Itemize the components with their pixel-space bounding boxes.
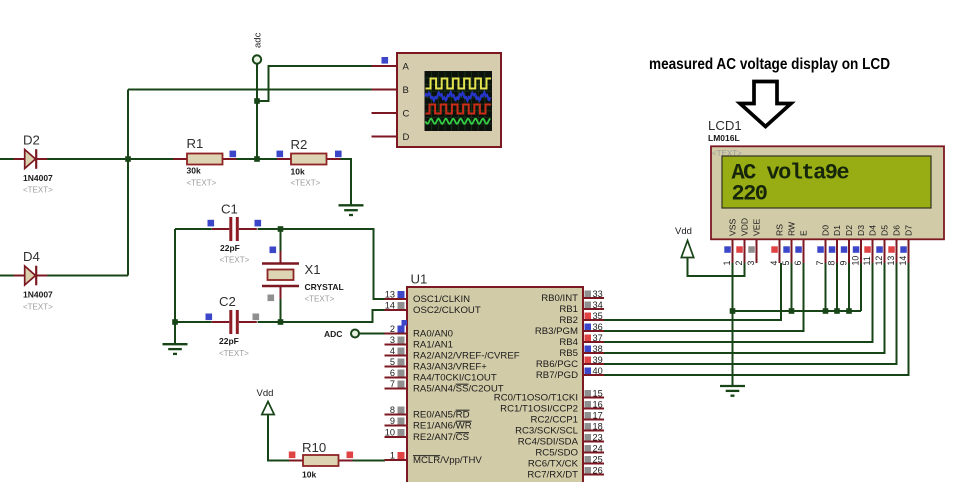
U1 pin 39 (right)	[583, 355, 604, 365]
U1 pin 1 (left)	[385, 451, 408, 461]
svg-text:C2: C2	[219, 294, 236, 309]
wire Vdd right to LCD pin2 VDD	[688, 257, 745, 276]
U1 pin 38 (right)	[583, 344, 604, 354]
U1 pin 36 (right)	[583, 322, 604, 332]
oscilloscope body	[397, 53, 501, 147]
U1 pin 25 (right)	[583, 455, 604, 465]
svg-text:RW: RW	[787, 221, 797, 236]
LCD1 pin 11 D4	[862, 225, 878, 266]
U1 pin 17 (right)	[583, 411, 604, 421]
svg-text:10k: 10k	[302, 470, 316, 480]
svg-text:9: 9	[839, 261, 849, 266]
svg-text:23: 23	[593, 433, 603, 443]
wire MCU pin 37 RB4 to LCD D4	[604, 263, 873, 342]
svg-text:17: 17	[593, 411, 603, 421]
marker square scope A	[382, 57, 389, 64]
wire Vdd left stem to R10	[268, 414, 296, 461]
resistor R2	[277, 154, 341, 165]
svg-text:RE0/AN5/RD: RE0/AN5/RD	[413, 410, 470, 421]
svg-text:D7: D7	[904, 225, 914, 236]
wire C2 left	[175, 321, 212, 323]
svg-text:D1: D1	[832, 225, 842, 236]
svg-text:1N4007: 1N4007	[23, 173, 53, 183]
LCD1 pin 4 RS	[769, 224, 785, 266]
svg-text:36: 36	[593, 322, 603, 332]
LCD1 pin 3 VEE	[746, 219, 762, 266]
U1 pin 26 (right)	[583, 466, 604, 476]
wire MCU pin 39 RB6 to LCD D6	[604, 263, 897, 364]
U1 pin 35 (right)	[583, 311, 604, 321]
svg-text:Vdd: Vdd	[675, 226, 692, 237]
wire LCD pin8 D1 to bus	[836, 263, 838, 311]
wire from D4 anode to left edge	[0, 275, 14, 277]
ground GND3 (LCD)	[720, 386, 745, 396]
U1 pin 24 (right)	[583, 444, 604, 454]
svg-text:U1: U1	[411, 272, 428, 287]
svg-text:RB0/INT: RB0/INT	[541, 293, 578, 304]
svg-text:40: 40	[593, 366, 603, 376]
svg-text:RC0/T1OSO/T1CKI: RC0/T1OSO/T1CKI	[494, 393, 578, 404]
svg-text:9: 9	[390, 416, 395, 426]
wire adc branch to scope A	[257, 66, 372, 101]
svg-text:D6: D6	[892, 225, 902, 236]
svg-text:RC4/SDI/SDA: RC4/SDI/SDA	[518, 437, 579, 448]
svg-text:LM016L: LM016L	[708, 133, 740, 143]
wire left ground riser x=175	[174, 229, 176, 344]
wire crystal bottom connection	[280, 298, 282, 322]
oscilloscope pin B	[372, 89, 398, 91]
svg-text:RB6/PGC: RB6/PGC	[536, 359, 578, 370]
svg-text:RB5: RB5	[559, 348, 578, 359]
marker square R10 left	[289, 452, 296, 459]
svg-text:1: 1	[390, 451, 395, 461]
svg-text:6: 6	[390, 368, 395, 378]
wire LCD pin10 D3 to bus	[860, 263, 862, 311]
junction adc to divider	[254, 156, 260, 162]
svg-text:2: 2	[390, 324, 395, 334]
U1 pin 16 (right)	[583, 400, 604, 410]
wire R10 right to MCU pin 1	[353, 460, 386, 462]
svg-text:38: 38	[593, 344, 603, 354]
U1 pin 2 (left)	[385, 324, 408, 334]
diode D4	[14, 266, 48, 286]
svg-text:CRYSTAL: CRYSTAL	[305, 282, 344, 292]
svg-text:RB3/PGM: RB3/PGM	[535, 326, 578, 337]
marker square C2 right	[253, 314, 260, 321]
svg-text:RC6/TX/CK: RC6/TX/CK	[528, 459, 579, 470]
svg-text:1: 1	[722, 261, 732, 266]
svg-text:7: 7	[390, 379, 395, 389]
svg-text:26: 26	[593, 466, 603, 476]
U1 pin 3 (left)	[385, 335, 408, 345]
svg-text:D5: D5	[880, 225, 890, 236]
svg-text:15: 15	[593, 389, 603, 399]
svg-text:RA5/AN4/SS/C2OUT: RA5/AN4/SS/C2OUT	[413, 384, 504, 395]
svg-text:<TEXT>: <TEXT>	[305, 295, 335, 304]
svg-text:RA1/AN1: RA1/AN1	[413, 340, 453, 351]
LCD1 pin 12 D5	[874, 225, 890, 266]
svg-text:R10: R10	[302, 440, 326, 455]
svg-text:1N4007: 1N4007	[23, 290, 53, 300]
svg-text:24: 24	[593, 444, 603, 454]
svg-text:RC2/CCP1: RC2/CCP1	[531, 415, 578, 426]
wire MCU pin 38 RB5 to LCD D5	[604, 263, 885, 353]
terminal ADC (at MCU pin2)	[351, 330, 359, 338]
svg-text:<TEXT>: <TEXT>	[291, 179, 321, 188]
svg-text:VEE: VEE	[752, 219, 762, 236]
svg-text:C: C	[403, 109, 410, 120]
svg-text:RA3/AN3/VREF+: RA3/AN3/VREF+	[413, 362, 487, 373]
svg-text:14: 14	[385, 301, 395, 311]
wire D2 cathode to R1	[47, 158, 173, 160]
scope trace blue (noisy wave)	[426, 92, 491, 101]
svg-text:22pF: 22pF	[220, 243, 240, 253]
marker square R10 right	[347, 452, 354, 459]
marker small blue square at RB2 row	[402, 320, 408, 326]
LCD1 pin 1 VSS	[722, 219, 738, 266]
svg-text:RC1/T1OSI/CCP2: RC1/T1OSI/CCP2	[500, 404, 578, 415]
oscilloscope pin C	[372, 112, 398, 114]
svg-text:25: 25	[593, 455, 603, 465]
U1 pin 40 (right)	[583, 366, 604, 376]
LCD1 pin 7 D0	[815, 225, 831, 266]
wire node A1 to MCU pin 13	[281, 229, 387, 299]
svg-text:ADC: ADC	[324, 329, 342, 339]
svg-text:OSC1/CLKIN: OSC1/CLKIN	[413, 294, 470, 305]
svg-text:B: B	[403, 85, 409, 96]
svg-text:<TEXT>: <TEXT>	[23, 303, 53, 312]
LCD1 pin 2 VDD	[734, 218, 750, 266]
wire C2 right to node A2	[258, 321, 281, 323]
wire adc terminal vertical drop	[256, 63, 258, 159]
resistor R1	[173, 154, 237, 165]
marker square C2 left	[206, 314, 213, 321]
U1 pin 5 (left)	[385, 357, 408, 367]
scope trace yellow (square wave)	[426, 79, 492, 89]
svg-text:5: 5	[390, 357, 395, 367]
U1 pin 23 (right)	[583, 433, 604, 443]
resistor R10	[289, 455, 353, 466]
marker square X1 bottom	[268, 295, 275, 302]
wire vertical riser x=128 (node joining D2,D4,scope B)	[127, 90, 129, 276]
svg-text:RA0/AN0: RA0/AN0	[413, 329, 453, 340]
svg-text:13: 13	[886, 256, 896, 266]
U1 pin 33 (right)	[583, 289, 604, 299]
junction D2/D4/scopeB node	[125, 156, 131, 162]
junction LCD D1/bus	[834, 308, 840, 314]
marker square C1 left	[208, 220, 215, 227]
svg-text:4: 4	[769, 261, 779, 266]
svg-text:MCLR/Vpp/THV: MCLR/Vpp/THV	[413, 455, 482, 466]
capacitor C2	[212, 310, 257, 334]
terminal adc (origin)	[253, 55, 261, 63]
svg-text:measured AC voltage display on: measured AC voltage display on LCD	[649, 56, 890, 73]
marker square X1 top	[270, 247, 277, 254]
svg-text:10: 10	[851, 256, 861, 266]
junction LCD RW/bus	[789, 308, 795, 314]
svg-text:R2: R2	[291, 137, 308, 152]
junction LCD VSS/bus	[730, 308, 736, 314]
svg-text:OSC2/CLKOUT: OSC2/CLKOUT	[413, 305, 481, 316]
U1 pin 37 (right)	[583, 333, 604, 343]
microcontroller U1 body	[407, 287, 583, 482]
svg-text:18: 18	[593, 422, 603, 432]
big down arrow	[740, 82, 791, 127]
wire C1 right to node A1	[258, 228, 281, 230]
wire node A2 to MCU pin 14	[281, 310, 387, 322]
svg-text:E: E	[799, 230, 809, 236]
U1 pin 14 (left)	[385, 301, 408, 311]
wire R2 right to ground GND1	[339, 159, 351, 205]
svg-text:5: 5	[781, 261, 791, 266]
svg-text:3: 3	[390, 335, 395, 345]
wire scope channel B	[128, 89, 372, 91]
LCD LCD1 body	[711, 146, 944, 239]
svg-text:35: 35	[593, 311, 603, 321]
svg-text:22pF: 22pF	[219, 336, 239, 346]
svg-text:14: 14	[898, 256, 908, 266]
svg-text:8: 8	[390, 405, 395, 415]
svg-text:30k: 30k	[187, 166, 201, 176]
oscilloscope pin D	[372, 136, 398, 138]
U1 pin 9 (left)	[385, 416, 408, 426]
U1 pin 34 (right)	[583, 300, 604, 310]
svg-text:220: 220	[732, 182, 767, 207]
junction C1/crystal/OSC1	[278, 226, 284, 232]
LCD1 pin 6 E	[793, 230, 809, 266]
svg-text:VSS: VSS	[728, 219, 738, 236]
oscilloscope pin A	[372, 65, 398, 67]
scope trace green (sine wave)	[426, 119, 491, 124]
wire LCD pin5 RW to bus	[791, 263, 793, 311]
svg-text:Vdd: Vdd	[257, 388, 274, 399]
U1 pin 6 (left)	[385, 368, 408, 378]
svg-text:RB7/PGD: RB7/PGD	[536, 370, 578, 381]
LCD1 pin 9 D2	[839, 225, 855, 266]
LCD screen	[722, 156, 931, 208]
wire ADC terminal to MCU pin 2	[359, 333, 385, 335]
wire from D2 anode to left edge	[0, 158, 14, 160]
svg-text:D3: D3	[856, 225, 866, 236]
svg-text:<TEXT>: <TEXT>	[219, 349, 249, 358]
wire LCD pin1 VSS to ground	[732, 263, 734, 385]
svg-text:13: 13	[385, 290, 395, 300]
wire crystal top connection	[280, 229, 282, 252]
marker square R2 right	[335, 151, 342, 158]
power Vdd arrow right	[681, 241, 693, 258]
junction LCD D0/bus	[823, 308, 829, 314]
svg-text:RA4/T0CKI/C1OUT: RA4/T0CKI/C1OUT	[413, 373, 497, 384]
junction LCD D2/bus	[846, 308, 852, 314]
power Vdd arrow left	[262, 402, 274, 415]
svg-text:RB1: RB1	[559, 304, 578, 315]
svg-text:A: A	[403, 62, 410, 73]
svg-text:RE2/AN7/CS: RE2/AN7/CS	[413, 432, 469, 443]
svg-text:12: 12	[874, 256, 884, 266]
wire MCU pin 35 RB2 to LCD RS	[604, 263, 781, 320]
svg-text:RS: RS	[775, 224, 785, 236]
svg-text:2: 2	[734, 261, 744, 266]
ground GND2 (C1/C2)	[163, 344, 188, 354]
svg-text:D4: D4	[868, 225, 878, 236]
wire LCD pin9 D2 to bus	[848, 263, 850, 311]
svg-text:<TEXT>: <TEXT>	[23, 186, 53, 195]
wire LCD ground bus	[733, 310, 862, 312]
U1 pin 18 (right)	[583, 422, 604, 432]
svg-text:D2: D2	[844, 225, 854, 236]
svg-text:adc: adc	[253, 32, 264, 48]
junction C2/crystal/OSC2	[278, 319, 284, 325]
wire MCU pin 36 RB3 to LCD E	[604, 263, 804, 331]
LCD1 pin 14 D7	[898, 225, 914, 266]
svg-text:39: 39	[593, 355, 603, 365]
crystal X1	[262, 251, 299, 299]
scope trace red (square wave)	[426, 105, 492, 114]
U1 pin 13 (left)	[385, 290, 408, 300]
svg-text:7: 7	[815, 261, 825, 266]
svg-text:RE1/AN6/WR: RE1/AN6/WR	[413, 421, 472, 432]
svg-text:10k: 10k	[291, 167, 305, 177]
wire C1 left to ground riser	[175, 228, 212, 230]
svg-text:6: 6	[793, 261, 803, 266]
svg-text:D4: D4	[23, 249, 40, 264]
svg-text:D: D	[403, 132, 410, 143]
svg-text:10: 10	[385, 428, 395, 438]
svg-text:RA2/AN2/VREF-/CVREF: RA2/AN2/VREF-/CVREF	[413, 351, 520, 362]
svg-text:<TEXT>: <TEXT>	[220, 256, 250, 265]
svg-text:VDD: VDD	[740, 218, 750, 236]
U1 pin 10 (left)	[385, 428, 408, 438]
svg-text:<TEXT>: <TEXT>	[187, 179, 217, 188]
svg-text:37: 37	[593, 333, 603, 343]
svg-text:3: 3	[746, 261, 756, 266]
capacitor C1	[212, 217, 257, 241]
LCD1 pin 13 D6	[886, 225, 902, 266]
svg-text:X1: X1	[305, 262, 321, 277]
svg-text:16: 16	[593, 400, 603, 410]
svg-text:RB2: RB2	[559, 315, 578, 326]
wire LCD pin7 D0 to bus	[825, 263, 827, 311]
marker square C1 right	[255, 220, 262, 227]
ground GND1 (R2)	[339, 205, 364, 215]
svg-text:RC3/SCK/SCL: RC3/SCK/SCL	[515, 426, 579, 437]
junction C2/ground riser	[172, 319, 178, 325]
marker square R1 right	[230, 151, 237, 158]
LCD1 pin 5 RW	[781, 221, 797, 266]
LCD1 pin 8 D1	[827, 225, 843, 266]
svg-text:4: 4	[390, 346, 395, 356]
svg-text:R1: R1	[187, 136, 204, 151]
U1 pin 7 (left)	[385, 379, 408, 389]
svg-text:C1: C1	[221, 202, 238, 217]
U1 pin 15 (right)	[583, 389, 604, 399]
wire D4 cathode to vertical riser	[47, 275, 128, 277]
U1 pin 8 (left)	[385, 405, 408, 415]
svg-text:RC5/SDO: RC5/SDO	[535, 448, 578, 459]
svg-text:8: 8	[827, 261, 837, 266]
junction adc branch	[254, 98, 260, 104]
diode D2	[14, 149, 48, 169]
svg-text:RB4: RB4	[559, 337, 578, 348]
U1 pin 4 (left)	[385, 346, 408, 356]
svg-text:LCD1: LCD1	[708, 118, 742, 133]
wire MCU pin 40 RB7 to LCD D7	[604, 263, 909, 375]
LCD1 pin 10 D3	[851, 225, 867, 266]
wire R1 right to R2 left	[235, 158, 277, 160]
svg-text:D2: D2	[23, 133, 40, 148]
svg-text:11: 11	[862, 256, 872, 265]
marker square R2 left	[277, 151, 284, 158]
svg-text:RC7/RX/DT: RC7/RX/DT	[527, 470, 578, 481]
svg-text:D0: D0	[821, 225, 831, 236]
svg-text:34: 34	[593, 300, 603, 310]
svg-text:33: 33	[593, 289, 603, 299]
